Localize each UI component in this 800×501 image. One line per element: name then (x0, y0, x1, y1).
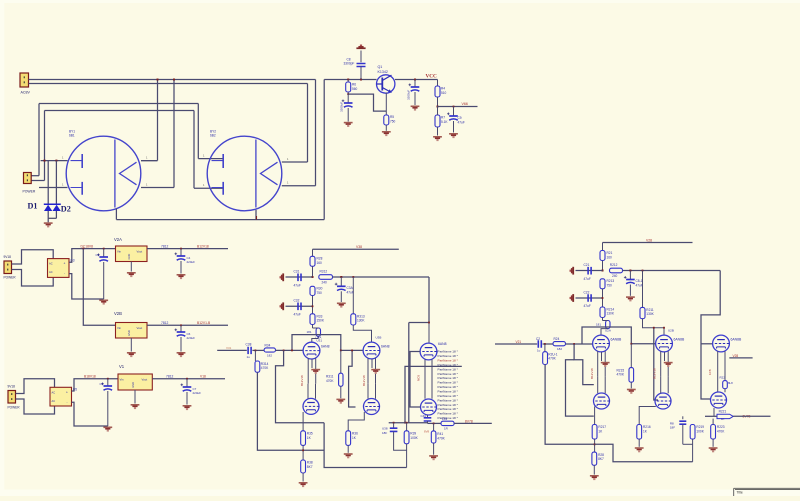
svg-text:K1342: K1342 (378, 70, 388, 74)
svg-text:6AN8: 6AN8 (381, 345, 390, 349)
svg-text:1C8: 1C8 (708, 369, 712, 375)
svg-text:3300uF: 3300uF (407, 90, 411, 100)
svg-text:181: 181 (596, 322, 601, 326)
svg-text:C3: C3 (96, 253, 100, 257)
svg-text:100K: 100K (696, 430, 704, 434)
svg-text:3300pF: 3300pF (344, 62, 355, 66)
svg-text:VCC: VCC (426, 74, 437, 80)
svg-text:Title: Title (737, 491, 743, 495)
svg-text:6AN8B: 6AN8B (731, 338, 742, 342)
svg-text:9V18: 9V18 (8, 385, 16, 389)
svg-text:PartName 18 *: PartName 18 * (438, 403, 459, 407)
svg-text:V21: V21 (516, 340, 522, 344)
svg-text:47uF: 47uF (294, 284, 301, 288)
svg-text:9V18: 9V18 (4, 255, 12, 259)
svg-text:Vin: Vin (117, 249, 121, 253)
svg-text:47uF: 47uF (294, 312, 301, 316)
svg-text:510: 510 (441, 91, 447, 95)
svg-text:POWER: POWER (8, 406, 21, 410)
svg-text:8K7: 8K7 (598, 457, 604, 461)
svg-text:PartName 18 *: PartName 18 * (438, 385, 459, 389)
svg-text:PartName 18 *: PartName 18 * (438, 381, 459, 385)
svg-text:B18V18: B18V18 (84, 375, 96, 379)
svg-text:470K: 470K (548, 357, 556, 361)
svg-text:Vout: Vout (137, 249, 143, 253)
svg-text:1u: 1u (247, 355, 251, 359)
svg-text:220uF: 220uF (187, 336, 196, 340)
svg-text:160: 160 (607, 255, 613, 259)
svg-text:100K: 100K (410, 436, 418, 440)
svg-text:750: 750 (607, 284, 613, 288)
svg-text:8V78: 8V78 (465, 420, 473, 424)
svg-text:B12V18: B12V18 (300, 375, 304, 386)
svg-text:V2A: V2A (114, 237, 122, 242)
svg-text:6AN8: 6AN8 (438, 342, 447, 346)
svg-text:C32: C32 (294, 299, 300, 303)
svg-text:R221: R221 (719, 409, 727, 413)
svg-text:AC: AC (52, 399, 56, 403)
svg-text:PartName 18 *: PartName 18 * (438, 376, 459, 380)
svg-text:1K: 1K (721, 417, 725, 421)
svg-text:D2: D2 (61, 205, 71, 214)
svg-text:PartName 18 *: PartName 18 * (438, 412, 459, 416)
svg-text:NC8: NC8 (417, 375, 421, 381)
svg-text:V2B: V2B (114, 311, 122, 316)
svg-text:750: 750 (317, 291, 323, 295)
svg-text:47uF: 47uF (458, 120, 465, 124)
svg-text:R312: R312 (320, 270, 328, 274)
svg-text:C22: C22 (584, 290, 590, 294)
svg-text:470K: 470K (437, 436, 445, 440)
svg-text:PartName 18 *: PartName 18 * (438, 367, 459, 371)
svg-text:C21: C21 (584, 263, 590, 267)
svg-text:PartName 18 *: PartName 18 * (438, 389, 459, 393)
svg-text:470K: 470K (717, 430, 725, 434)
svg-text:B12V18: B12V18 (652, 368, 656, 379)
svg-text:POWER: POWER (4, 276, 17, 280)
svg-text:AC: AC (49, 270, 53, 274)
svg-text:8V8: 8V8 (424, 429, 430, 433)
svg-text:Vin: Vin (117, 326, 121, 330)
svg-text:6AN8B: 6AN8B (674, 338, 685, 342)
svg-text:V66: V66 (462, 102, 468, 106)
svg-text:V28: V28 (646, 238, 652, 242)
svg-text:182: 182 (267, 353, 272, 357)
svg-text:5.1K: 5.1K (441, 120, 448, 124)
svg-text:7812: 7812 (161, 244, 169, 248)
svg-text:Q1: Q1 (378, 65, 383, 69)
svg-text:U2B: U2B (668, 329, 674, 333)
svg-text:PartName 18 *: PartName 18 * (438, 398, 459, 402)
svg-text:560: 560 (352, 87, 358, 91)
svg-text:8L8: 8L8 (728, 381, 733, 385)
svg-text:L41: L41 (442, 417, 448, 421)
svg-text:R24: R24 (554, 337, 560, 341)
svg-text:D1: D1 (28, 202, 38, 211)
svg-text:+: + (66, 390, 68, 394)
svg-text:3300uF: 3300uF (340, 102, 344, 112)
svg-text:V28: V28 (733, 354, 739, 358)
svg-text:AC8V: AC8V (21, 91, 31, 95)
svg-text:PartName 18 *: PartName 18 * (438, 416, 459, 420)
svg-text:6AN8B: 6AN8B (611, 338, 622, 342)
svg-text:DC18V8: DC18V8 (81, 245, 94, 249)
svg-text:C5: C5 (100, 382, 104, 386)
svg-text:B12V1-B: B12V1-B (197, 321, 211, 325)
svg-text:Vout: Vout (142, 378, 148, 382)
svg-text:R212: R212 (610, 263, 618, 267)
svg-text:PartName 18 *: PartName 18 * (438, 354, 459, 358)
svg-text:18F: 18F (382, 431, 387, 435)
svg-text:7812: 7812 (161, 321, 169, 325)
svg-text:18F: 18F (670, 426, 675, 430)
svg-text:47uF: 47uF (584, 277, 591, 281)
svg-text:130K: 130K (607, 312, 615, 316)
svg-text:1u: 1u (537, 348, 541, 352)
svg-text:470K: 470K (261, 366, 269, 370)
svg-text:150K: 150K (317, 319, 325, 323)
svg-text:240: 240 (322, 281, 328, 285)
svg-text:PartName 18 *: PartName 18 * (438, 394, 459, 398)
svg-text:-: - (67, 400, 68, 404)
svg-text:130K: 130K (357, 319, 365, 323)
svg-text:182: 182 (557, 347, 562, 351)
svg-text:6B1: 6B1 (69, 134, 75, 138)
svg-text:47uF: 47uF (347, 290, 354, 294)
svg-text:PartName 18 *: PartName 18 * (438, 407, 459, 411)
svg-text:GND: GND (127, 254, 131, 260)
svg-text:C2: C2 (536, 337, 540, 341)
svg-text:PartName 18 *: PartName 18 * (438, 350, 459, 354)
svg-text:130K: 130K (646, 312, 654, 316)
svg-text:220uF: 220uF (187, 260, 196, 264)
svg-text:PartName 18 *: PartName 18 * (438, 358, 459, 362)
svg-text:AC: AC (49, 262, 53, 266)
svg-text:-: - (64, 271, 65, 275)
svg-text:Vin: Vin (120, 378, 124, 382)
svg-text:U3A: U3A (316, 336, 322, 340)
svg-text:+: + (64, 262, 66, 266)
svg-text:47uF: 47uF (636, 283, 643, 287)
svg-text:U2A: U2A (605, 329, 611, 333)
svg-text:240: 240 (612, 274, 618, 278)
svg-text:B12V18: B12V18 (197, 245, 209, 249)
svg-text:GND: GND (131, 382, 135, 388)
svg-text:750: 750 (390, 119, 396, 123)
svg-text:Vout: Vout (137, 326, 143, 330)
svg-text:B12V18: B12V18 (362, 375, 366, 386)
svg-text:GND: GND (127, 330, 131, 336)
svg-text:7812: 7812 (166, 374, 174, 378)
svg-text:V18: V18 (200, 375, 206, 379)
svg-text:R34: R34 (265, 344, 271, 348)
svg-text:470K: 470K (326, 379, 334, 383)
svg-text:6AN8: 6AN8 (321, 345, 330, 349)
svg-text:C38: C38 (246, 342, 252, 346)
svg-text:470K: 470K (617, 373, 625, 377)
svg-text:POWER: POWER (23, 190, 36, 194)
svg-text:V1: V1 (119, 364, 125, 369)
svg-text:U3B: U3B (376, 336, 382, 340)
svg-text:PartName 18 *: PartName 18 * (438, 372, 459, 376)
svg-text:160: 160 (317, 261, 323, 265)
svg-text:220uF: 220uF (193, 391, 202, 395)
svg-text:8K7: 8K7 (307, 465, 313, 469)
svg-text:B12V18: B12V18 (590, 368, 594, 379)
svg-text:181: 181 (307, 330, 312, 334)
svg-text:AC: AC (52, 390, 56, 394)
svg-text:C31: C31 (294, 270, 300, 274)
svg-text:C40: C40 (421, 414, 427, 418)
svg-text:6B2: 6B2 (210, 134, 216, 138)
svg-text:V31: V31 (226, 346, 232, 350)
svg-text:V38: V38 (356, 245, 362, 249)
svg-text:R22: R22 (720, 376, 726, 380)
svg-text:47uF: 47uF (584, 304, 591, 308)
